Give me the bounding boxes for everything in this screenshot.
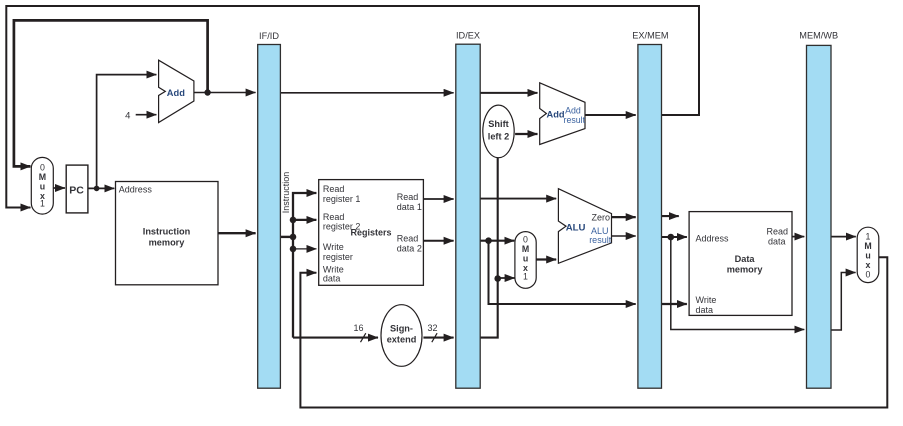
svg-text:x: x	[866, 260, 871, 270]
svg-text:Address: Address	[696, 234, 730, 244]
svg-text:1: 1	[866, 231, 871, 241]
svg-text:32: 32	[427, 323, 437, 333]
svg-text:memory: memory	[727, 265, 764, 275]
svg-text:Write: Write	[696, 295, 717, 305]
svg-text:u: u	[40, 182, 45, 192]
svg-text:Read: Read	[397, 192, 419, 202]
svg-text:MEM/WB: MEM/WB	[799, 31, 838, 41]
svg-text:data: data	[323, 273, 341, 283]
svg-text:16: 16	[353, 323, 363, 333]
svg-text:u: u	[865, 251, 870, 261]
svg-text:register: register	[323, 252, 353, 262]
svg-text:Shift: Shift	[488, 119, 508, 129]
svg-text:result: result	[589, 235, 612, 245]
svg-text:data: data	[696, 305, 714, 315]
svg-text:0: 0	[40, 162, 45, 172]
svg-text:4: 4	[125, 111, 130, 122]
svg-text:Data: Data	[735, 254, 756, 264]
svg-text:0: 0	[866, 270, 871, 280]
svg-text:Zero: Zero	[592, 212, 611, 222]
svg-text:M: M	[864, 241, 871, 251]
svg-text:Registers: Registers	[350, 227, 391, 237]
svg-text:Instruction: Instruction	[143, 227, 191, 237]
svg-text:u: u	[523, 253, 528, 263]
svg-text:data 2: data 2	[397, 243, 422, 253]
svg-text:Add: Add	[167, 88, 185, 98]
svg-text:extend: extend	[387, 334, 417, 344]
svg-text:Read: Read	[767, 227, 789, 237]
svg-text:Sign-: Sign-	[390, 323, 413, 333]
svg-text:result: result	[564, 115, 586, 125]
svg-text:IF/ID: IF/ID	[259, 31, 279, 41]
svg-text:x: x	[40, 191, 45, 201]
svg-text:Write: Write	[323, 242, 344, 252]
svg-text:Add: Add	[565, 106, 581, 116]
svg-text:0: 0	[523, 234, 528, 244]
svg-text:x: x	[523, 263, 528, 273]
svg-text:Read: Read	[397, 234, 419, 244]
svg-text:data: data	[768, 236, 786, 246]
svg-text:EX/MEM: EX/MEM	[632, 31, 668, 41]
svg-text:data 1: data 1	[397, 202, 422, 212]
svg-text:ID/EX: ID/EX	[456, 31, 480, 41]
svg-text:register 1: register 1	[323, 194, 361, 204]
svg-text:left 2: left 2	[488, 131, 509, 141]
svg-text:Add: Add	[547, 109, 565, 119]
svg-text:PC: PC	[69, 185, 84, 197]
svg-text:M: M	[522, 244, 529, 254]
svg-text:M: M	[39, 172, 46, 182]
svg-text:Read: Read	[323, 212, 345, 222]
svg-text:ALU: ALU	[566, 222, 586, 233]
svg-text:Instruction: Instruction	[281, 172, 291, 214]
svg-text:Address: Address	[119, 184, 153, 194]
svg-text:memory: memory	[149, 237, 186, 247]
svg-text:Read: Read	[323, 184, 345, 194]
